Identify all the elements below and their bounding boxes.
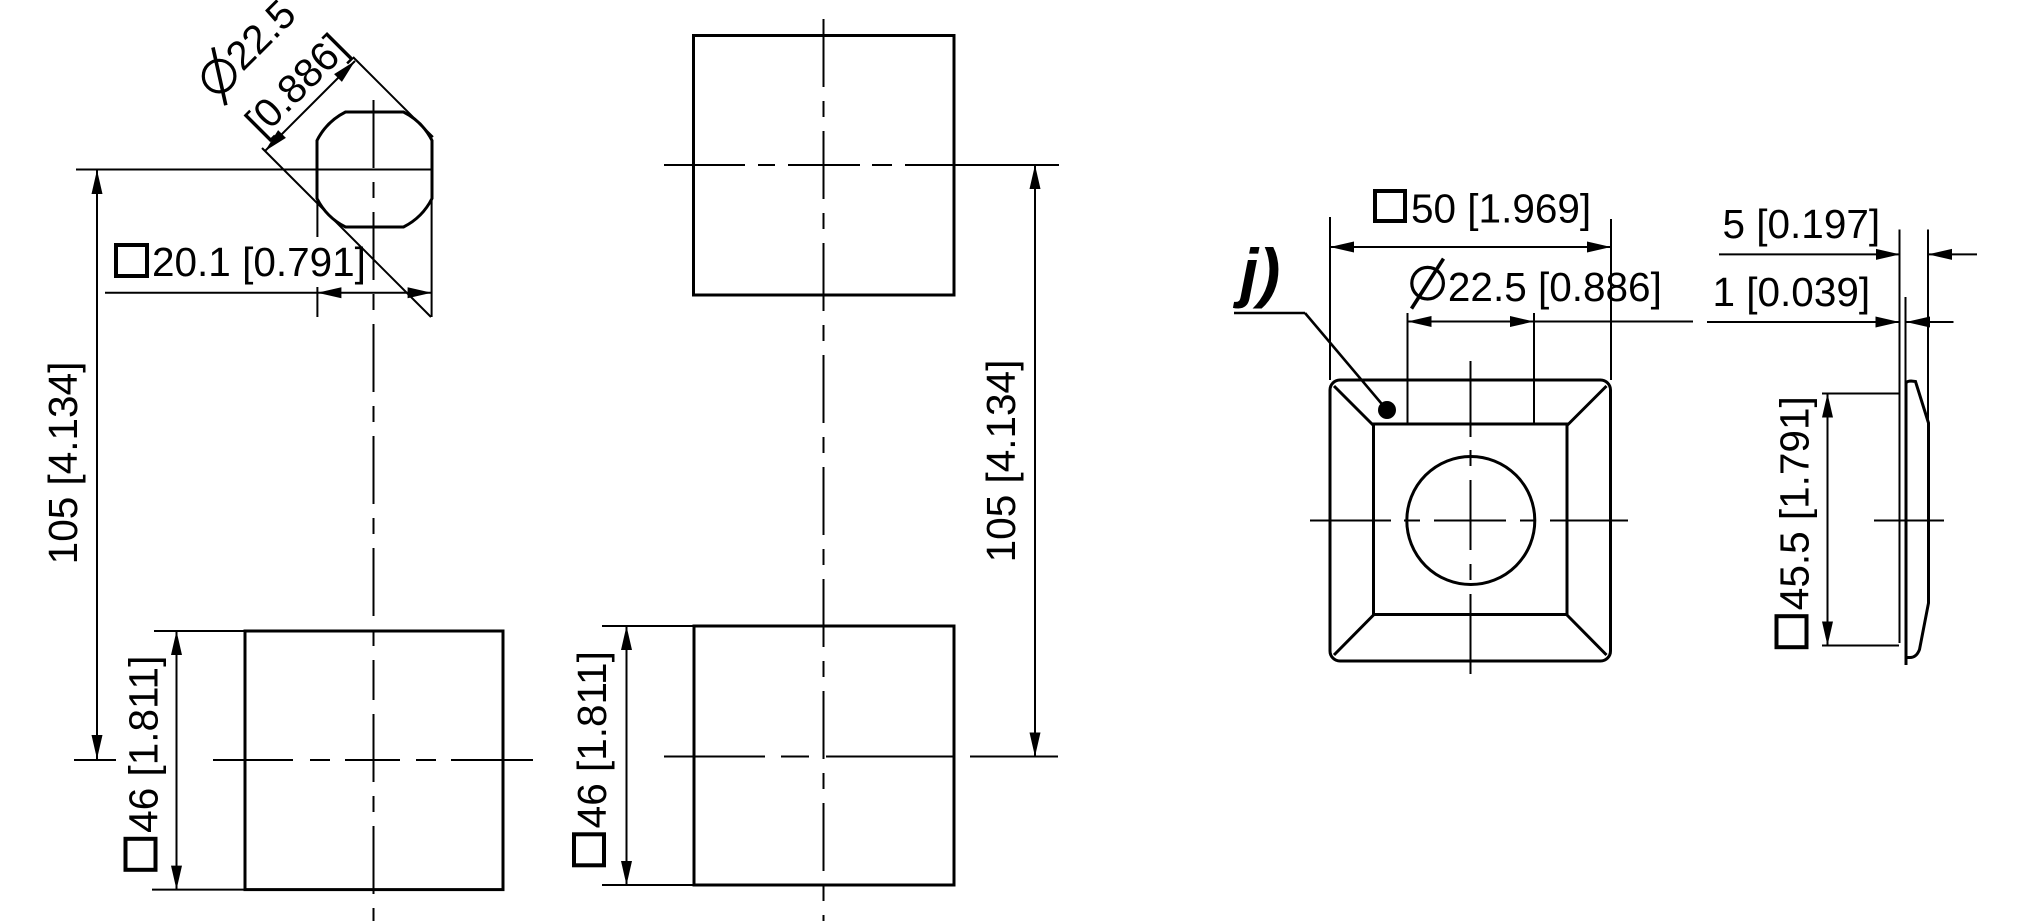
svg-text:5 [0.197]: 5 [0.197] — [1723, 201, 1881, 247]
svg-text:46 [1.811]: 46 [1.811] — [569, 651, 615, 828]
svg-text:46 [1.811]: 46 [1.811] — [121, 656, 167, 833]
dimension square 20.1 [0.791]: extension lines — [316, 198, 318, 237]
dimension Ø22.5 [0.886] front: dimension line and arrows — [1408, 321, 1694, 323]
bezel chamfer corner line top-right — [1567, 386, 1607, 426]
svg-text:45.5 [1.791]: 45.5 [1.791] — [1772, 396, 1818, 610]
side view profile outline (flange and tapered body) — [1906, 381, 1929, 658]
bottom-left square (46 button body outline) — [245, 631, 503, 890]
panel cutout octagon (Ø22.5 circle with four flats, square 20.1) — [317, 112, 432, 227]
vertical centerline of left drawing — [373, 100, 375, 700]
dimension square 46 [1.811] middle: extension lines — [602, 625, 694, 627]
side view flange back extension line (1mm) — [1905, 297, 1907, 385]
dimension square 50 [1.969]: extension lines — [1329, 217, 1331, 380]
bezel center hole circle Ø22.5 — [1407, 457, 1535, 585]
svg-text:105 [4.134]: 105 [4.134] — [978, 360, 1024, 563]
middle top square (46 body, top view) — [694, 36, 955, 296]
dimension square 50 [1.969]: dimension line and arrows — [1330, 246, 1611, 248]
svg-text:105 [4.134]: 105 [4.134] — [40, 362, 86, 565]
side view profile outline left edge — [1905, 381, 1908, 665]
dimension square 46 [1.811] left: extension lines — [154, 630, 245, 632]
side view front face line / extension for 5 and 1 dims — [1899, 230, 1901, 644]
bezel horizontal centerline — [1310, 520, 1391, 522]
dimension square 45.5 [1.791]: label with square symbol — [1772, 396, 1818, 647]
dimension square 46 [1.811] left: dimension line and arrows — [176, 631, 178, 890]
dimension 5 [0.197]: dimension lines and arrows — [1719, 253, 1900, 255]
bezel chamfer corner line bottom-right — [1567, 615, 1607, 656]
svg-text:50 [1.969]: 50 [1.969] — [1411, 186, 1591, 232]
bezel outer square 50x50 with rounded corners — [1330, 380, 1611, 661]
diagonal dimension Ø22.5 [0.886]: dimension line and arrows — [265, 61, 355, 151]
dimension square 45.5 [1.791]: dimension line and arrows — [1827, 394, 1829, 646]
dimension square 20.1 [0.791]: label with square symbol — [116, 245, 147, 276]
dimension square 45.5 [1.791]: extension lines — [1822, 393, 1899, 395]
svg-text:j): j) — [1232, 235, 1280, 309]
horizontal centerline through octagon / top extension of 105 dim — [76, 169, 433, 171]
dimension 1 [0.039]: dimension lines and arrows — [1707, 321, 1900, 323]
side view back extension line (5mm) — [1927, 230, 1929, 424]
dimension 105 [4.134] left: dimension line and arrows — [96, 170, 98, 759]
dimension square 50 [1.969]: label with square symbol — [1375, 191, 1405, 221]
bezel chamfer corner line top-left — [1334, 386, 1374, 426]
bezel inner square (bottom of chamfer) — [1374, 424, 1568, 615]
side view horizontal centerline — [1874, 520, 1944, 522]
middle bottom square horizontal centerline — [664, 756, 765, 758]
diagonal dimension Ø22.5 [0.886]: tangent extension lines — [262, 148, 431, 317]
bezel chamfer corner line bottom-left — [1334, 615, 1374, 656]
svg-text:22.5 [0.886]: 22.5 [0.886] — [1448, 264, 1662, 310]
dimension square 46 [1.811] left: label with square symbol — [121, 656, 167, 870]
svg-text:20.1 [0.791]: 20.1 [0.791] — [152, 239, 366, 285]
dimension Ø22.5 [0.886] front: extension lines — [1407, 313, 1409, 424]
dimension square 46 [1.811] middle: label with square symbol — [569, 651, 615, 865]
middle top square horizontal centerline — [664, 164, 745, 166]
dimension square 20.1 [0.791]: dimension line and arrows — [105, 292, 432, 294]
dimension 105 [4.134] middle: dimension line and arrows — [1034, 165, 1036, 757]
dimension square 46 [1.811] middle: dimension line and arrows — [626, 626, 628, 885]
middle bottom square (46 body) — [694, 626, 954, 885]
middle vertical centerline — [823, 5, 825, 921]
dimension Ø22.5 [0.886] front: label with diameter symbol — [1412, 267, 1444, 299]
bottom-left square horizontal centerline — [74, 759, 116, 761]
svg-text:1 [0.039]: 1 [0.039] — [1713, 269, 1871, 315]
diagonal dimension Ø22.5 [0.886]: label line 1 (Ø22.5) — [190, 0, 306, 105]
bezel vertical centerline — [1470, 361, 1472, 675]
